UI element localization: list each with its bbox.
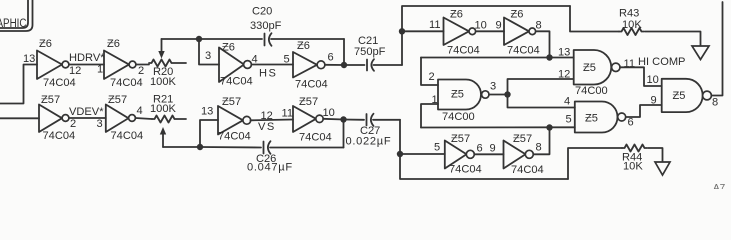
wire F2 out up to pin5 rail: [534, 128, 550, 155]
svg-text:6: 6: [328, 52, 334, 64]
inverter Z57 E1 74C04 pins 13-12 VS: [201, 96, 273, 143]
svg-text:12: 12: [69, 65, 81, 77]
wire VS: [251, 119, 294, 122]
svg-text:VDEV*: VDEV*: [69, 106, 104, 118]
wire NAND A out: [489, 94, 508, 96]
wire node to pin 12: [508, 79, 574, 95]
svg-text:Ƶ5: Ƶ5: [673, 90, 686, 102]
svg-text:APHIC: APHIC: [0, 16, 27, 30]
inverter Z6 B2 74C04 pins 5-6: [284, 40, 334, 91]
node NAND A out: [504, 91, 510, 97]
svg-text:74C04: 74C04: [299, 132, 332, 144]
svg-text:74C04: 74C04: [43, 130, 76, 142]
wire E2 out to node: [323, 118, 343, 121]
svg-text:10: 10: [323, 107, 335, 119]
svg-text:74C04: 74C04: [110, 77, 143, 89]
capacitor C21 750pF: [344, 35, 402, 71]
svg-text:74C04: 74C04: [43, 77, 76, 89]
inverter Z57 D2 74C04 pins 3-4: [97, 94, 144, 142]
svg-text:HI COMP: HI COMP: [638, 56, 685, 68]
wire 6 to 9: [475, 153, 504, 155]
inverter Z6 A2 74C04 pins 1-2: [97, 38, 144, 89]
inverter Z6 B1 74C04 pins 3-4 HS: [205, 42, 258, 88]
wire input HDRV net: [0, 65, 37, 104]
svg-text:Ƶ6: Ƶ6: [222, 42, 235, 54]
svg-text:Ƶ6: Ƶ6: [107, 38, 120, 50]
NAND Z5 B 74C00 pins 4,5-6: [564, 96, 634, 133]
svg-text:3: 3: [490, 81, 496, 93]
svg-text:4: 4: [564, 96, 570, 108]
wire pin1/pin5 rail: [421, 126, 575, 128]
NAND Z5 A 74C00 pins 1,2-3: [429, 71, 497, 123]
wire HDRV*: [69, 64, 104, 66]
svg-text:13: 13: [558, 47, 570, 59]
svg-text:Ƶ5: Ƶ5: [585, 113, 598, 125]
svg-text:1: 1: [432, 94, 438, 106]
NAND Z5 top 74C00 pins 13,12-11: [558, 47, 635, 98]
svg-text:Ƶ6: Ƶ6: [450, 9, 463, 21]
svg-text:13: 13: [201, 106, 213, 118]
svg-text:74C04: 74C04: [220, 76, 253, 88]
inverter Z57 E2 74C04 pins 11-10: [282, 96, 335, 144]
svg-text:Ƶ57: Ƶ57: [222, 96, 241, 108]
svg-text:11: 11: [282, 108, 294, 120]
wire VDEV*: [69, 117, 106, 119]
svg-text:VS: VS: [258, 121, 276, 133]
svg-text:6: 6: [477, 143, 483, 155]
wire C20 down leg: [343, 39, 345, 65]
svg-text:74C00: 74C00: [575, 85, 608, 97]
resistor R20 100K potentiometer: [149, 39, 186, 88]
svg-text:HDRV*: HDRV*: [69, 52, 105, 64]
svg-text:74C04: 74C04: [447, 45, 480, 57]
node HS input: [196, 36, 202, 42]
svg-text:74C00: 74C00: [442, 111, 475, 123]
svg-text:100K: 100K: [150, 103, 177, 115]
svg-text:9: 9: [490, 143, 496, 155]
wire 6 to pin 9: [626, 105, 662, 117]
resistor R21 100K potentiometer: [150, 94, 186, 148]
wire A2 out to R20: [136, 64, 149, 66]
wire C21 to top rail: [402, 6, 570, 65]
svg-text:Ƶ5: Ƶ5: [451, 89, 464, 101]
off-page connector box GRAPHIC: [0, 0, 33, 31]
svg-text:11: 11: [429, 19, 441, 31]
svg-text:Ƶ6: Ƶ6: [511, 9, 524, 21]
svg-text:2: 2: [429, 71, 435, 83]
wire rail down to NAND pin 2: [421, 58, 438, 86]
inverter Z57 F1 74C04 pins 5-6: [434, 133, 483, 176]
svg-text:Ƶ57: Ƶ57: [451, 133, 470, 145]
svg-text:2: 2: [138, 65, 144, 77]
svg-text:R43: R43: [619, 8, 639, 20]
node C20/C21 junction: [341, 62, 347, 68]
wire R21 wiper to node: [163, 146, 200, 148]
inverter Z57 F2 74C04 pins 9-8: [490, 133, 544, 176]
node VS input: [197, 144, 203, 150]
svg-text:2: 2: [70, 118, 76, 130]
svg-text:4: 4: [137, 105, 143, 117]
svg-text:74C04: 74C04: [218, 131, 251, 143]
power symbol triangle R43: [692, 46, 709, 60]
wire node up to pin 13: [200, 120, 218, 147]
svg-text:6: 6: [628, 117, 634, 129]
svg-text:13: 13: [23, 53, 35, 65]
node pin5 rail junction: [546, 124, 552, 130]
node pin13 rail junction: [546, 54, 552, 60]
wire R20 wiper to node: [162, 38, 200, 40]
svg-text:1: 1: [97, 64, 103, 76]
node C26/C27 junction: [340, 116, 346, 122]
svg-text:74C04: 74C04: [111, 130, 144, 142]
svg-text:8: 8: [536, 20, 542, 32]
wire node to pin 5: [400, 153, 445, 155]
inverter Z57 D1 74C04 out 2: [39, 94, 76, 142]
svg-text:5: 5: [284, 54, 290, 66]
svg-text:100K: 100K: [150, 76, 177, 88]
wire rail up to NAND pin 1: [421, 104, 438, 128]
svg-text:HS: HS: [259, 68, 277, 80]
wire 10 to 9: [476, 30, 504, 32]
svg-text:A7: A7: [713, 183, 726, 189]
svg-text:0.022µF: 0.022µF: [346, 136, 392, 148]
capacitor C20 330pF: [199, 6, 344, 46]
svg-text:3: 3: [97, 118, 103, 130]
capacitor C26 0.047uF: [200, 141, 344, 173]
wire output 8 to top right: [711, 2, 722, 96]
svg-text:74C04: 74C04: [507, 45, 540, 57]
svg-text:Ƶ57: Ƶ57: [41, 94, 60, 106]
svg-text:12: 12: [558, 69, 570, 81]
wire C27 down to bottom rail: [400, 120, 568, 179]
power symbol triangle R44: [655, 162, 670, 175]
svg-text:Ƶ57: Ƶ57: [513, 133, 532, 145]
wire node down to pin 3: [199, 39, 219, 65]
svg-text:Ƶ57: Ƶ57: [299, 96, 318, 108]
svg-text:9: 9: [496, 20, 502, 32]
NAND Z5 C 74C00 pins 10,9-8: [662, 79, 718, 112]
svg-text:8: 8: [536, 142, 542, 154]
wire HS: [252, 64, 294, 66]
svg-text:5: 5: [434, 142, 440, 154]
svg-text:10: 10: [475, 20, 487, 32]
svg-text:74C04: 74C04: [295, 79, 328, 91]
wire C2 out down to pin13 rail: [536, 31, 550, 57]
svg-text:750pF: 750pF: [354, 46, 386, 58]
resistor R44 10K: [568, 145, 663, 180]
svg-text:8: 8: [712, 97, 718, 109]
svg-text:Ƶ6: Ƶ6: [297, 40, 310, 52]
inverter Z6 C2 74C04 pins 9-8: [496, 9, 542, 57]
wire C26 up leg: [343, 120, 345, 148]
svg-text:0.047µF: 0.047µF: [247, 162, 293, 174]
svg-text:5: 5: [566, 114, 572, 126]
capacitor C27 0.022uF: [344, 114, 401, 148]
inverter Z6 A1 74C04 pins 13-12: [23, 38, 81, 89]
svg-text:Ƶ57: Ƶ57: [108, 94, 127, 106]
svg-text:9: 9: [651, 95, 657, 107]
svg-text:10K: 10K: [623, 161, 643, 173]
wire pin13 rail: [421, 57, 574, 59]
svg-text:74C04: 74C04: [449, 164, 482, 176]
wire 11 to pin 10: [620, 67, 662, 86]
svg-text:330pF: 330pF: [250, 20, 282, 32]
resistor R43 10K: [570, 6, 701, 46]
svg-text:3: 3: [205, 50, 211, 62]
inverter Z6 C1 74C04 pins 11-10: [429, 9, 487, 57]
wire node to pin 4: [508, 95, 575, 108]
wire B2 out to node: [325, 64, 344, 66]
wire node to pin 11: [402, 30, 444, 32]
svg-text:C20: C20: [252, 6, 272, 18]
svg-text:Ƶ6: Ƶ6: [39, 38, 52, 50]
svg-text:10K: 10K: [622, 19, 642, 31]
svg-text:74C04: 74C04: [511, 164, 544, 176]
wire D2 out to R21: [136, 118, 153, 119]
wire input VDEV net: [0, 117, 39, 119]
svg-text:10: 10: [647, 74, 659, 86]
node pin5 junction: [397, 151, 403, 157]
svg-text:Ƶ5: Ƶ5: [583, 62, 596, 74]
node pin11 junction: [399, 28, 405, 34]
